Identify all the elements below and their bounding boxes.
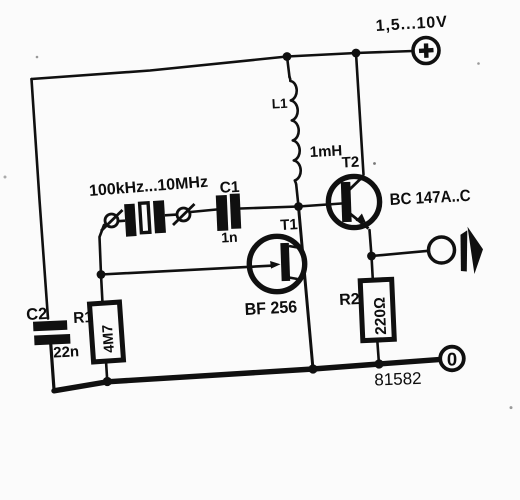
R2 body box (360, 279, 394, 340)
svg-text:1,5...10V: 1,5...10V (375, 14, 448, 35)
resistor R2 220ohm (360, 279, 394, 340)
svg-text:0: 0 (447, 349, 457, 370)
svg-text:1mH: 1mH (309, 142, 342, 161)
+ sign horizontal stroke (419, 48, 434, 53)
R1 body box (90, 302, 124, 362)
svg-text:L1: L1 (271, 96, 288, 112)
C1 left plate (216, 195, 229, 231)
wire crystal right terminal to C1 (191, 210, 217, 213)
capacitor C2 plates (33, 320, 70, 345)
wire L1 bottom to node B (296, 185, 298, 207)
T1 channel bar (280, 243, 290, 281)
wire R1 bottom to ground rail (106, 361, 107, 382)
T2 collector lead (348, 176, 364, 192)
T1 source lead (289, 278, 298, 280)
+ sign vertical stroke (424, 43, 429, 57)
output arrow symbol (461, 227, 484, 274)
wire left socket to crystal (118, 219, 125, 222)
wire T2 emitter down to output node (370, 230, 372, 256)
svg-text:100kHz...10MHz: 100kHz...10MHz (88, 174, 208, 200)
junction dot T1 source/ground rail (308, 364, 317, 373)
crystal X1 body (plate-box-plate) (117, 200, 178, 238)
wire L1 top (287, 57, 290, 78)
junction dot T2 collector/top rail (352, 49, 361, 58)
svg-text:R1: R1 (73, 309, 94, 327)
svg-text:C1: C1 (219, 179, 240, 197)
T2 base bar (341, 182, 352, 222)
wire top supply rail (32, 51, 414, 79)
wire crystal left terminal down to R1 node (100, 225, 105, 275)
C2 bottom plate (34, 334, 70, 345)
crystal left electrode plate (124, 204, 136, 237)
T2 emitter arrow (356, 214, 367, 224)
svg-text:T1: T1 (280, 216, 298, 234)
crystal right electrode plate (153, 200, 166, 233)
wire R2 bottom to ground rail (377, 341, 379, 365)
junction dot R1/ground rail (103, 377, 112, 386)
svg-text:BC 147A..C: BC 147A..C (389, 187, 471, 209)
wire output node to R2 top (372, 256, 373, 280)
junction dot node A (crystal/R1/T1 gate) (97, 270, 106, 279)
svg-text:BF 256: BF 256 (244, 297, 297, 319)
wire T1 gate (node A to arrow) (101, 266, 271, 275)
junction dot R2/ground rail (374, 359, 383, 368)
wire crystal to right socket (165, 213, 177, 216)
+ terminal circle (413, 38, 439, 64)
capacitor C1 plates (216, 193, 242, 231)
svg-text:C2: C2 (26, 305, 48, 324)
T2 emitter lead (348, 212, 369, 229)
C1 right plate (230, 193, 242, 228)
crystal socket right terminal (circle with slash) (173, 204, 195, 225)
C2 top plate (33, 320, 67, 331)
svg-text:220Ω: 220Ω (371, 297, 390, 336)
wire T1 drain/source through line (node B to ground rail) (299, 207, 314, 370)
svg-text:1n: 1n (221, 229, 238, 246)
T1 envelope circle (249, 236, 304, 291)
ground terminal 0 (440, 347, 464, 371)
transistor T1 BF256 (JFET) (249, 236, 304, 291)
wire T2 collector to supply rail (356, 53, 364, 175)
svg-text:81582: 81582 (374, 369, 422, 390)
svg-text:22n: 22n (53, 343, 80, 361)
transistor T2 BC147 (NPN) (328, 176, 379, 229)
T2 envelope circle (328, 176, 379, 227)
0 terminal circle (440, 347, 464, 371)
junction dot output node (T2 emitter/R2) (367, 252, 376, 261)
resistor R1 4M7 (90, 302, 124, 362)
svg-text:R2: R2 (339, 291, 360, 309)
wire C2 bottom to ground rail (51, 345, 54, 390)
inductor L1 coil 1mH (290, 77, 301, 185)
junction dot node B (L1/C1/T1 drain/T2 base) (294, 202, 303, 211)
T1 gate arrow (270, 261, 280, 269)
output terminal circle (429, 237, 455, 263)
wire ground rail (bold bus) (54, 360, 439, 391)
crystal socket left terminal (circle with slash) (101, 210, 123, 231)
wire node A to R1 top (101, 275, 103, 304)
crystal quartz element (140, 203, 150, 233)
svg-text:T2: T2 (341, 154, 359, 172)
T1 drain lead (289, 246, 298, 248)
wire left branch (supply to C2) (32, 79, 49, 319)
wire output node to output terminal (372, 251, 429, 256)
junction dot L1/top rail (283, 52, 292, 61)
svg-text:4M7: 4M7 (100, 324, 118, 353)
supply terminal + (1,5...10V) (413, 38, 439, 64)
wire C1 right to T2 base (241, 204, 342, 209)
output arrow head (468, 227, 484, 274)
output arrow tail bar (461, 230, 468, 271)
